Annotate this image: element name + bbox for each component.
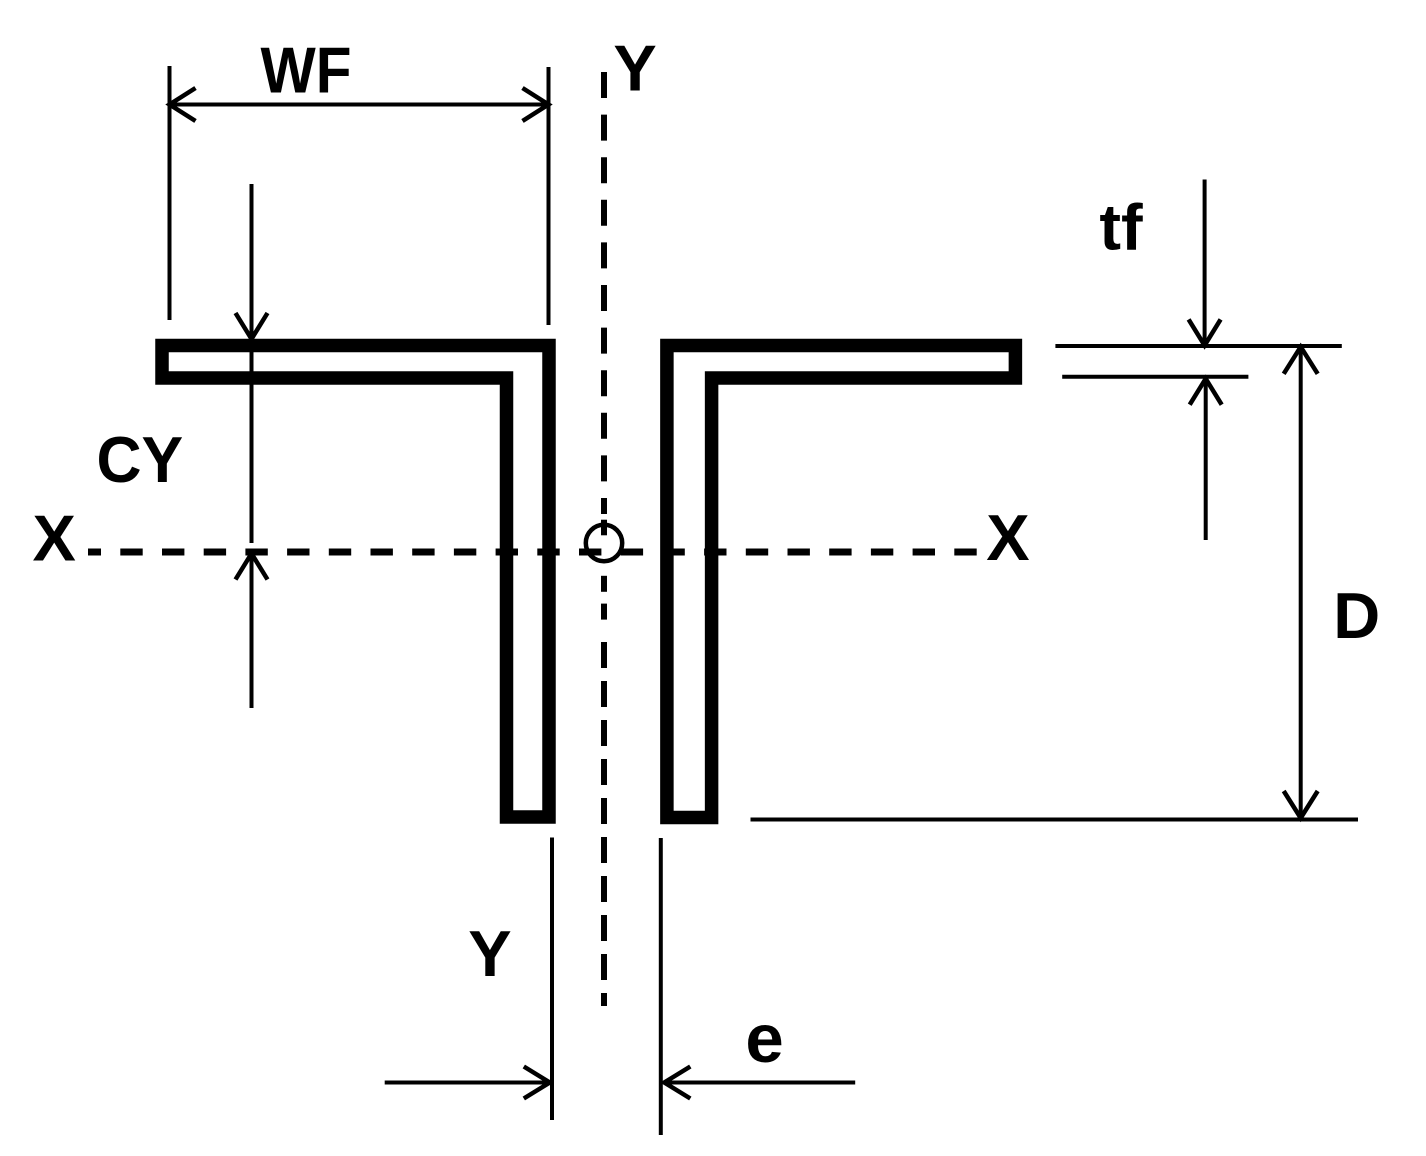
X axis dashed centerline: [88, 549, 985, 556]
CY down arrowhead: [236, 313, 268, 339]
Y axis dashed centerline (lower run): [601, 642, 607, 1006]
right angle section outline: [667, 346, 1016, 818]
tf up arrowhead: [1190, 379, 1222, 405]
tf upper reference line: [1055, 344, 1341, 348]
svg-text:WF: WF: [261, 35, 352, 108]
Y bottom right-pointing arrowhead: [524, 1067, 550, 1099]
WF left arrowhead: [170, 88, 196, 121]
CY down arrow line: [250, 184, 254, 339]
Y axis dash below circle 2: [601, 604, 607, 620]
e arrow line: [664, 1081, 855, 1085]
centroid circle: [586, 525, 622, 561]
CY up arrow line: [250, 554, 254, 709]
D down arrowhead: [1284, 791, 1318, 818]
left angle section outline: [162, 346, 549, 818]
tf down arrowhead: [1189, 319, 1221, 345]
e left-pointing arrowhead: [664, 1067, 690, 1099]
svg-text:X: X: [986, 501, 1029, 574]
CY pass-through line: [250, 339, 254, 543]
D dimension line: [1299, 347, 1303, 818]
svg-text:tf: tf: [1099, 190, 1143, 263]
svg-text:Y: Y: [468, 917, 511, 990]
svg-text:X: X: [33, 501, 76, 574]
WF dimension line: [170, 103, 549, 107]
CY up arrowhead: [236, 554, 268, 580]
Y axis dash below circle 1: [601, 576, 607, 592]
WF left extension line: [168, 66, 172, 320]
tf up arrow line: [1204, 379, 1208, 540]
Y bottom arrow line: [385, 1081, 550, 1085]
D bottom reference line: [751, 818, 1359, 822]
svg-text:D: D: [1333, 579, 1380, 652]
e bottom extension line: [659, 838, 663, 1135]
svg-text:e: e: [745, 1000, 783, 1077]
WF right arrowhead: [523, 88, 549, 121]
WF right extension line: [547, 67, 551, 325]
Y bottom extension line: [550, 838, 554, 1121]
Y axis dash at circle top: [601, 520, 607, 536]
svg-text:Y: Y: [613, 32, 656, 105]
svg-text:CY: CY: [96, 423, 183, 496]
Y axis dashed centerline (upper run): [601, 72, 607, 514]
D up arrowhead: [1284, 347, 1318, 374]
tf down arrow line: [1203, 180, 1207, 346]
tf lower reference line: [1062, 375, 1248, 379]
